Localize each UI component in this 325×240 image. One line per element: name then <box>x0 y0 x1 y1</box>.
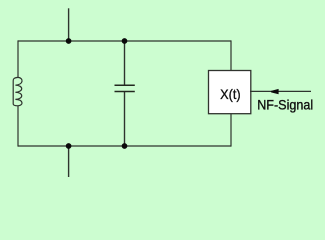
wire top rail <box>18 40 231 42</box>
arrowhead into box <box>271 89 279 94</box>
svg-text:NF-Signal: NF-Signal <box>257 97 313 113</box>
block X(t) <box>209 71 251 114</box>
inductor L1 <box>13 77 22 105</box>
node junction dot bottom-left <box>66 143 72 149</box>
capacitor C1 <box>115 85 135 91</box>
wire box bottom to rail <box>230 114 232 147</box>
wire antenna stub bottom <box>68 146 70 177</box>
svg-text:X(t): X(t) <box>220 86 241 102</box>
wire left rail top <box>17 40 19 77</box>
wire NF input line <box>250 90 311 92</box>
wire capacitor top lead <box>124 41 126 85</box>
wire right drop to box <box>230 40 232 70</box>
node junction dot bottom-right <box>122 143 128 149</box>
wire antenna stub top <box>68 8 70 41</box>
wire capacitor bottom lead <box>124 91 126 146</box>
node junction dot top-left <box>66 38 72 44</box>
wire bottom rail <box>18 145 231 147</box>
wire left rail bottom <box>17 106 19 147</box>
node junction dot top-right <box>122 38 128 44</box>
